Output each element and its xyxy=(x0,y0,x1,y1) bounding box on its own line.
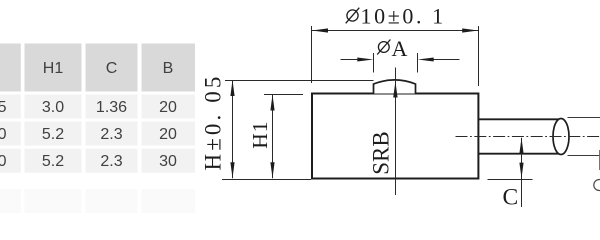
svg-text:0: 0 xyxy=(0,126,7,143)
svg-text:1.36: 1.36 xyxy=(96,99,127,116)
svg-text:H±0. 05: H±0. 05 xyxy=(201,74,226,171)
svg-text:A: A xyxy=(392,36,408,61)
dimension ØA : dimension line with inward arrows xyxy=(341,58,460,62)
table row 2 background xyxy=(0,122,195,146)
dimension ØA : extension lines xyxy=(374,53,418,73)
svg-text:C: C xyxy=(503,185,519,211)
table header row background xyxy=(0,44,195,92)
text SRB (rotated, on body) xyxy=(369,131,394,174)
dimension C : extension line at body bottom level xyxy=(488,179,533,181)
dimension H±0.05 : dimension line with arrows xyxy=(230,80,234,178)
dimension H1 : dimension line with arrows xyxy=(270,95,274,179)
svg-text:5: 5 xyxy=(0,99,7,116)
svg-text:10±0. 1: 10±0. 1 xyxy=(361,4,446,29)
table row 3 values 0 5.2 2.3 30 xyxy=(0,153,177,170)
dimension C : dimension line with outward arrows xyxy=(519,138,523,207)
cable (cylinder exiting right) xyxy=(479,119,570,155)
svg-text:B: B xyxy=(163,60,174,77)
svg-text:H1: H1 xyxy=(248,121,272,149)
dimension Ø10±0.1 : extension lines xyxy=(312,26,479,86)
table header text H1 C B xyxy=(43,60,174,77)
load arrow on centerline (points up at boss) xyxy=(393,82,397,98)
svg-text:20: 20 xyxy=(159,99,177,116)
body outline xyxy=(312,94,478,179)
cable continuation thin lines xyxy=(568,118,600,156)
partial dimension at right edge (cut off Ø...) xyxy=(594,150,600,191)
dimension text Ø10±0.1 xyxy=(346,4,446,29)
svg-text:20: 20 xyxy=(159,126,177,143)
dimension text ØA xyxy=(377,36,407,61)
svg-text:30: 30 xyxy=(159,153,177,170)
dimension text H±0.05 (rotated) xyxy=(201,74,226,171)
bottom extension line (shared by H and H1) xyxy=(222,179,311,181)
svg-text:3.0: 3.0 xyxy=(42,99,64,116)
svg-text:H1: H1 xyxy=(43,60,64,77)
table ghost row 4 (faded) xyxy=(0,189,195,213)
svg-text:2.3: 2.3 xyxy=(100,153,122,170)
svg-text:C: C xyxy=(106,60,118,77)
dimension text C xyxy=(503,185,519,211)
table row 3 background xyxy=(0,149,195,173)
dimension H1 : top extension line xyxy=(264,94,303,96)
svg-text:2.3: 2.3 xyxy=(100,126,122,143)
table row 1 values 5 3.0 1.36 20 xyxy=(0,99,177,116)
table row 2 values 0 5.2 2.3 20 xyxy=(0,126,177,143)
dimension Ø10±0.1 : dimension line with outward arrows xyxy=(312,28,478,32)
svg-text:5.2: 5.2 xyxy=(42,126,64,143)
dimension H±0.05 : top extension line to boss xyxy=(225,80,374,82)
svg-text:SRB: SRB xyxy=(369,131,394,174)
table row 1 background xyxy=(0,95,195,119)
cable horizontal centerline (dash-dot) xyxy=(456,136,600,138)
svg-text:0: 0 xyxy=(0,153,7,170)
dimension text H1 (rotated) xyxy=(248,121,272,149)
vertical centerline through boss and body xyxy=(395,68,397,196)
boss (top button) xyxy=(374,80,416,94)
svg-text:5.2: 5.2 xyxy=(42,153,64,170)
